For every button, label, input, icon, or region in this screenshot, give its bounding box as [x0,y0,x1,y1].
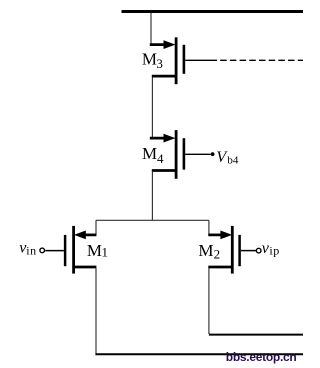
svg-text:1: 1 [102,245,109,260]
svg-text:bbs.eetop.cn: bbs.eetop.cn [226,350,297,364]
svg-text:M: M [87,241,102,260]
svg-text:M: M [198,241,213,260]
svg-text:3: 3 [156,56,163,71]
svg-text:in: in [26,244,36,258]
svg-text:M: M [142,49,157,68]
svg-text:4: 4 [157,151,164,166]
svg-text:ip: ip [269,244,279,258]
svg-text:M: M [142,144,157,163]
svg-text:2: 2 [214,246,221,261]
svg-text:b4: b4 [227,155,239,167]
